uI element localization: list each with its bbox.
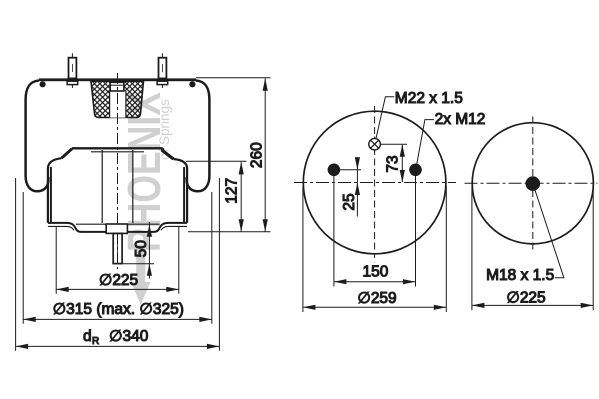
M12 hole left — [328, 164, 341, 177]
svg-text:260: 260 — [248, 142, 265, 168]
dim d315 max d325 — [23, 192, 212, 324]
leader 2x M12 — [417, 120, 434, 164]
M18 hole — [526, 176, 541, 191]
bumper crosshatch — [91, 81, 144, 117]
stud M12 left — [69, 58, 77, 79]
piston flange back edge — [76, 223, 160, 225]
piston slant right — [163, 148, 174, 159]
svg-text:∅225: ∅225 — [506, 289, 545, 306]
bead wire left — [40, 81, 46, 87]
dim 260 extension top — [196, 77, 271, 79]
bead wire right — [189, 81, 195, 87]
svg-text:∅259: ∅259 — [357, 290, 396, 307]
centerline main — [117, 73, 119, 269]
centerline horizontal — [294, 182, 456, 184]
dim dR d340 — [16, 178, 220, 351]
piston bottom dish — [48, 223, 187, 232]
dim 50 — [123, 222, 154, 279]
leader M22 — [376, 97, 394, 140]
piston shoulder wall left outer — [48, 158, 62, 223]
bumper bolt head — [110, 82, 124, 91]
piston top plate — [72, 147, 163, 149]
svg-text:∅340: ∅340 — [109, 328, 149, 345]
svg-text:73: 73 — [384, 155, 401, 172]
dim 260 — [248, 78, 268, 231]
dim 25 — [341, 157, 360, 217]
centerline vertical — [374, 106, 376, 258]
dim d225 right view — [472, 187, 593, 310]
stud tick left — [71, 53, 73, 88]
bottom boss — [106, 224, 127, 233]
watermark Phoenix logo — [118, 92, 172, 305]
piston shoulder wall right outer — [174, 159, 188, 223]
dim 150 — [334, 176, 416, 287]
svg-text:25: 25 — [341, 193, 358, 210]
M12 hole right — [409, 164, 422, 177]
svg-text:M18 x 1.5: M18 x 1.5 — [486, 267, 554, 284]
dim d259 — [303, 186, 446, 312]
svg-text:∅315 (max. ∅325): ∅315 (max. ∅325) — [53, 301, 184, 318]
M22 air fitting symbol — [369, 137, 381, 152]
bottom stud — [113, 233, 122, 263]
dim 127 extension top — [186, 160, 247, 162]
svg-text:∅225: ∅225 — [99, 272, 138, 289]
centerline horizontal right — [465, 182, 598, 184]
circle d225 — [472, 123, 593, 244]
central tube — [102, 150, 133, 223]
bellows body right — [187, 81, 210, 192]
dim d225 left view — [56, 227, 179, 294]
piston slant left — [62, 149, 73, 159]
piston wall right inner — [183, 167, 185, 223]
piston flange underline left — [48, 226, 74, 230]
svg-text:R: R — [92, 336, 99, 347]
top plate — [39, 78, 196, 81]
centerline vertical right — [532, 117, 534, 252]
piston wall left inner — [50, 167, 52, 223]
circle d259 — [303, 111, 446, 254]
svg-text:150: 150 — [362, 263, 388, 280]
dim 127 — [223, 162, 243, 232]
svg-text:50: 50 — [133, 240, 150, 258]
dim bottom extension — [188, 231, 271, 233]
svg-text:127: 127 — [223, 178, 240, 204]
hole reference line — [334, 169, 361, 171]
piston lip line — [91, 151, 144, 153]
stud flange right — [157, 81, 168, 84]
piston flange underline right — [161, 226, 187, 230]
bellows body left — [26, 81, 49, 192]
svg-text:M22 x 1.5: M22 x 1.5 — [395, 90, 463, 107]
leader M18 — [533, 184, 564, 278]
stud tick right — [161, 53, 163, 88]
bumper bolt channel — [110, 91, 126, 118]
stud flange left — [67, 81, 78, 84]
svg-text:2x M12: 2x M12 — [435, 111, 486, 128]
stud M12 right — [159, 58, 167, 79]
svg-text:d: d — [83, 328, 92, 345]
dim 73 — [381, 144, 407, 182]
